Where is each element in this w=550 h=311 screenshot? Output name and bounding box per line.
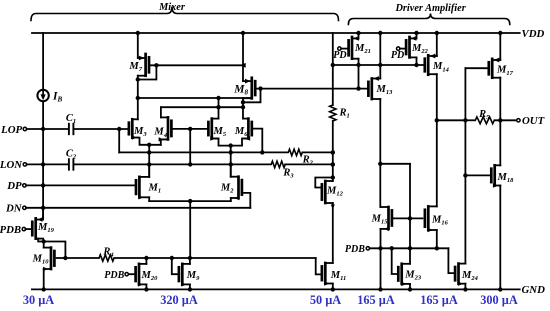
svg-text:50 µA: 50 µA	[310, 293, 341, 307]
svg-text:DP: DP	[6, 180, 22, 192]
svg-text:165 µA: 165 µA	[420, 293, 458, 307]
svg-text:LOP: LOP	[0, 124, 22, 136]
svg-text:30 µA: 30 µA	[23, 293, 54, 307]
svg-text:PDB: PDB	[104, 270, 124, 281]
svg-text:165 µA: 165 µA	[357, 293, 395, 307]
svg-text:PD: PD	[391, 50, 404, 61]
svg-text:OUT: OUT	[522, 115, 545, 127]
svg-text:320 µA: 320 µA	[160, 293, 198, 307]
svg-text:LON: LON	[0, 159, 23, 171]
svg-text:GND: GND	[522, 284, 546, 296]
svg-text:Driver Amplifier: Driver Amplifier	[394, 3, 466, 14]
svg-text:PDB: PDB	[0, 224, 21, 236]
svg-text:300 µA: 300 µA	[480, 293, 518, 307]
svg-text:VDD: VDD	[522, 28, 545, 40]
svg-text:PDB: PDB	[345, 244, 365, 255]
svg-text:DN: DN	[5, 203, 23, 215]
svg-text:Mixer: Mixer	[158, 2, 186, 13]
svg-text:PD: PD	[333, 50, 346, 61]
